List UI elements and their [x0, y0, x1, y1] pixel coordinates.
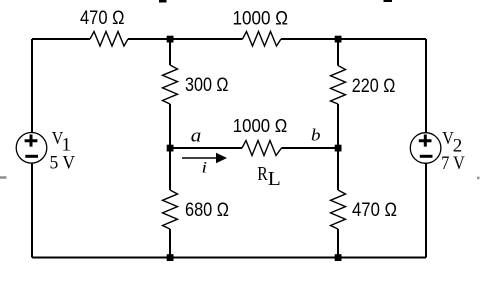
wire mid-left branch bottom stub	[169, 229, 171, 258]
svg-text:680 Ω: 680 Ω	[185, 199, 229, 221]
svg-text:300 Ω: 300 Ω	[185, 74, 229, 96]
wire mid-right branch (220 to node b)	[337, 104, 339, 148]
svg-text:R: R	[257, 163, 268, 185]
V1 minus sign	[25, 155, 38, 158]
svg-text:L: L	[268, 168, 281, 190]
resistor R 470 ohm bottom-right	[331, 190, 346, 229]
wire bottom (full)	[32, 257, 426, 259]
svg-text:1000 Ω: 1000 Ω	[233, 116, 287, 136]
V1 plus sign	[25, 135, 38, 147]
junction dot node a	[167, 145, 174, 152]
wire mid-right branch (node b to 470)	[337, 148, 339, 190]
svg-text:470 Ω: 470 Ω	[352, 199, 397, 221]
current arrow i	[182, 157, 219, 159]
wire left vertical upper (corner down to V1)	[31, 39, 33, 133]
junction dot node b	[335, 145, 342, 152]
svg-text:b: b	[311, 125, 321, 144]
artifact text fragment top edge left	[159, 0, 167, 3]
voltage source V2 circle	[410, 133, 441, 164]
wire mid-right branch top stub	[337, 39, 339, 66]
svg-text:i: i	[202, 160, 208, 177]
resistor R 470 ohm top-left	[90, 32, 128, 47]
wire left vertical lower (V1 to bottom-left corner)	[31, 163, 33, 258]
wire top-mid (470 resistor to node, to 1000 resistor)	[128, 38, 243, 40]
svg-text:1000 Ω: 1000 Ω	[233, 8, 289, 29]
V2 minus sign	[420, 155, 433, 158]
wire mid-left branch (300 to node a)	[169, 104, 171, 148]
wire mid-left branch top stub	[169, 39, 171, 65]
resistor R 220 ohm	[331, 66, 346, 105]
artifact gray dash left edge	[0, 176, 7, 178]
voltage source V1 circle	[16, 133, 47, 164]
resistor R 1000 ohm top	[243, 32, 282, 47]
wire mid-right branch bottom stub	[337, 229, 339, 258]
artifact gray dot right edge	[477, 177, 480, 180]
wire middle branch (node a to RL resistor)	[170, 147, 242, 149]
svg-text:220 Ω: 220 Ω	[352, 75, 396, 97]
junction dot top-left node	[167, 36, 174, 43]
wire right vertical upper (top-right corner down to V2)	[425, 39, 427, 133]
junction dot top-right node	[335, 36, 342, 43]
wire top-left (left corner to 470 resistor)	[32, 38, 90, 40]
svg-text:7 V: 7 V	[441, 153, 465, 174]
resistor R 680 ohm	[163, 190, 178, 229]
wire right vertical lower (V2 to bottom-right corner)	[425, 163, 427, 258]
junction dot bottom-left node	[167, 254, 174, 261]
svg-text:5 V: 5 V	[50, 152, 76, 173]
wire top-right (1000 resistor to top-right corner)	[281, 38, 426, 40]
V2 plus sign	[419, 135, 432, 147]
wire mid-left branch (node a to 680)	[169, 148, 171, 190]
wire middle branch (RL resistor to node b)	[282, 147, 339, 149]
svg-text:470 Ω: 470 Ω	[80, 8, 125, 29]
resistor RL 1000 ohm middle	[242, 141, 282, 156]
svg-text:a: a	[191, 125, 202, 146]
artifact text fragment top edge right	[384, 0, 393, 2]
junction dot bottom-right node	[335, 254, 342, 261]
resistor R 300 ohm	[163, 65, 178, 104]
